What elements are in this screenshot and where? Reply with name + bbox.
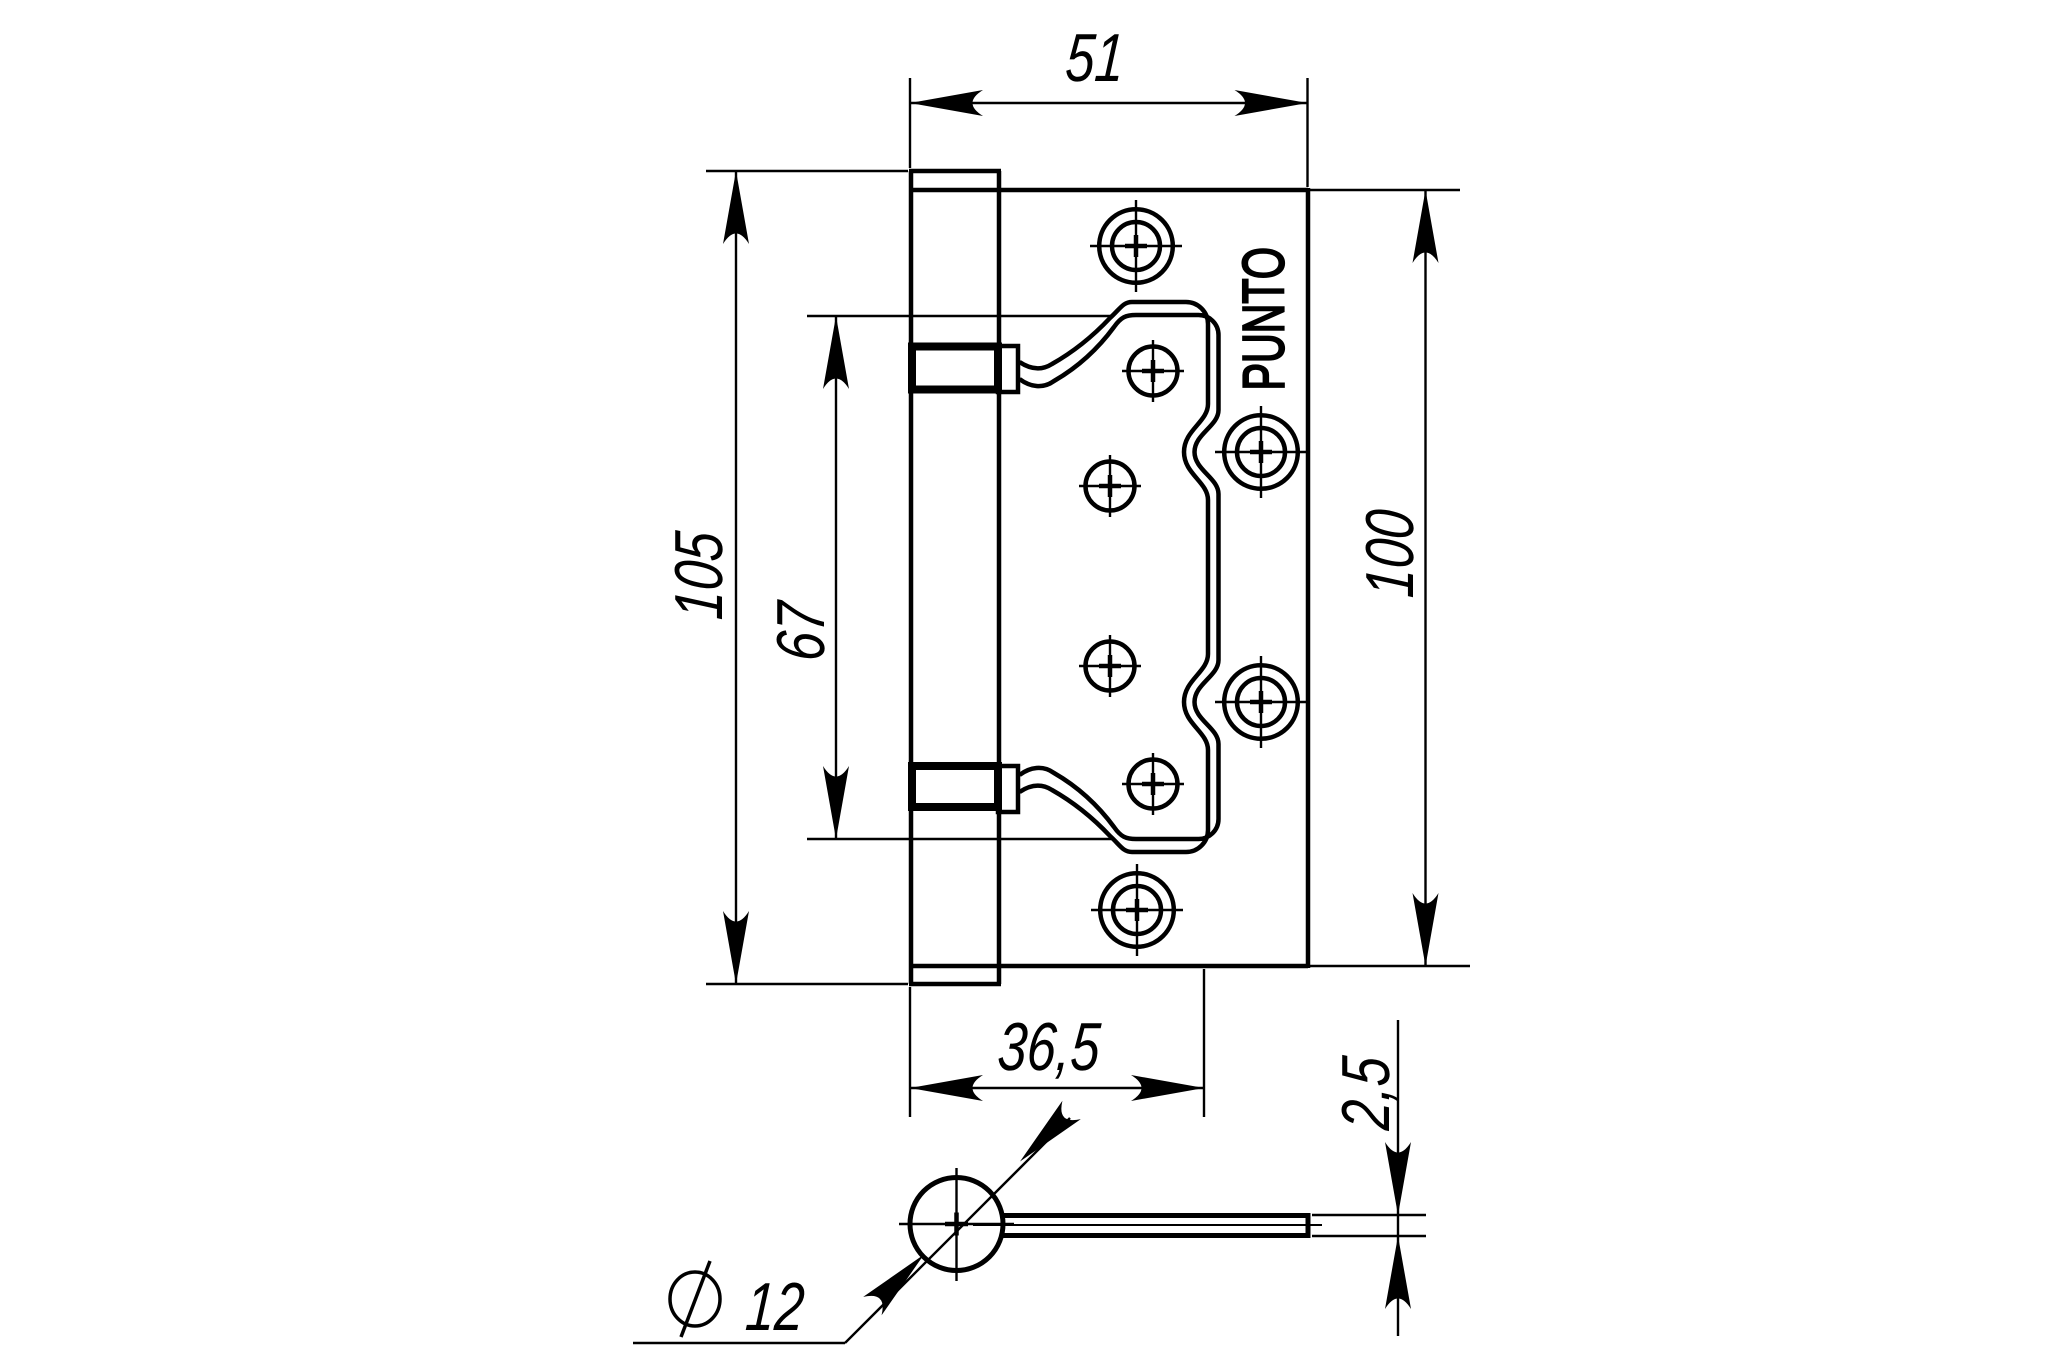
knuckle separator bottom ring	[912, 766, 998, 807]
hinge barrel left edge	[909, 171, 914, 984]
plate scalloped contour outer line with springs	[1020, 302, 1209, 852]
circle center cross	[945, 1213, 968, 1236]
arrow left of 36,5	[910, 1075, 983, 1101]
svg-text:105: 105	[660, 529, 736, 622]
svg-text:100: 100	[1351, 507, 1427, 600]
DIMENSION 105	[706, 171, 908, 984]
DIMENSION 2,5	[1312, 1020, 1426, 1336]
DIMENSION 100	[1310, 190, 1470, 966]
arrow top of 100	[1413, 190, 1439, 263]
hole center crosses bold	[1099, 235, 1272, 921]
hinge plate right edge	[1306, 188, 1311, 968]
hole crosshairs thin	[1079, 200, 1307, 956]
leaf bar bottom edge	[1002, 1233, 1308, 1238]
knuckle separator bottom tab	[998, 766, 1018, 812]
hinge plate bottom edge	[909, 964, 1308, 969]
arrow bottom of 67	[823, 766, 849, 839]
screw hole countersunk circles	[1099, 209, 1298, 947]
DIMENSION diameter 12 leader	[633, 1118, 1070, 1343]
leaf bar top edge	[1002, 1213, 1308, 1218]
arrow touching circle lower left	[863, 1245, 933, 1315]
plate scalloped contour inner line with springs	[1020, 315, 1219, 839]
svg-text:2,5: 2,5	[1327, 1054, 1403, 1133]
svg-text:12: 12	[743, 1268, 806, 1344]
barrel bottom cap edge	[909, 982, 1001, 987]
svg-text:51: 51	[1063, 19, 1126, 95]
label diameter symbol	[670, 1261, 720, 1337]
barrel top cap edge	[909, 169, 1001, 174]
extension line left	[909, 78, 911, 168]
hinge plate top edge	[909, 188, 1308, 193]
hinge barrel right edge	[997, 171, 1002, 984]
DIMENSION 36,5	[910, 969, 1204, 1117]
arrow bottom of 100	[1413, 893, 1439, 966]
DIMENSION 67	[807, 316, 1112, 839]
leaf bar right end cap	[1306, 1213, 1311, 1238]
svg-text:36,5: 36,5	[996, 1008, 1103, 1084]
arrow right of 51	[1235, 90, 1308, 116]
svg-text:PUNTO: PUNTO	[1230, 247, 1296, 390]
dimension line	[910, 102, 1308, 104]
DIMENSION 51	[910, 78, 1308, 187]
barrel circle	[910, 1178, 1003, 1271]
circle crosshair	[899, 1168, 1014, 1281]
arrow left of 51	[910, 90, 983, 116]
arrow bottom of 105	[723, 911, 749, 984]
arrow upper pointing at circle	[1011, 1101, 1081, 1171]
extension line right	[1306, 78, 1308, 187]
arrow top of 105	[723, 171, 749, 244]
arrow above 2,5 gap	[1385, 1142, 1411, 1215]
arrow top of 67	[823, 316, 849, 389]
knuckle separator top tab	[998, 346, 1018, 392]
knuckle separator top ring	[912, 347, 998, 390]
arrow right of 36,5	[1131, 1075, 1204, 1101]
screw hole small 1	[1086, 347, 1178, 809]
arrow below 2,5 gap	[1385, 1236, 1411, 1309]
svg-text:67: 67	[762, 598, 838, 663]
leaf middle seam line	[973, 1224, 1322, 1226]
